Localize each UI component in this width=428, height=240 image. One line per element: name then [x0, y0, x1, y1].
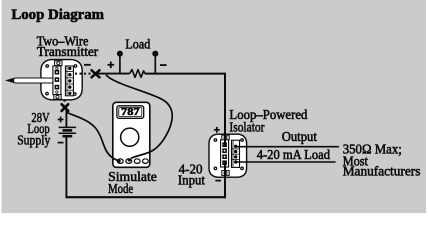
- two-wire transmitter housing: [41, 60, 82, 100]
- transmitter top screw tab: [55, 61, 62, 66]
- polarity label plus (right of X1): [108, 62, 115, 69]
- dashed wire: transmitter + terminal to break X1: [75, 73, 93, 75]
- battery supply + label: [58, 117, 64, 123]
- isolator right terminal strip: [232, 140, 240, 167]
- svg-text:Supply: Supply: [17, 133, 50, 148]
- wire: X1 to resistor: [95, 73, 129, 75]
- dashed wire: transmitter - terminal to break X2: [64, 100, 66, 104]
- meter rotary dial: [121, 128, 139, 146]
- label: Loop-Powered Isolator: [229, 108, 307, 135]
- break mark X2: [62, 104, 69, 111]
- output wire top: [236, 146, 339, 148]
- isolator left terminal strip: [221, 140, 229, 167]
- transmitter bottom screw tab: [54, 94, 61, 99]
- transmitter right terminal strip: [65, 66, 73, 96]
- svg-text:Manufacturers: Manufacturers: [343, 164, 421, 179]
- resistor (loop load): [130, 70, 145, 78]
- svg-text:787: 787: [121, 107, 140, 118]
- battery supply - label: [58, 142, 64, 144]
- isolator top screw tab: [222, 135, 229, 140]
- test lead: supply break X2 to meter jack 1: [67, 113, 118, 161]
- svg-text:Transmitter: Transmitter: [37, 45, 99, 60]
- transmitter left terminal strip: [53, 66, 61, 95]
- test lead: loop break X1 to meter jack 2: [106, 75, 172, 159]
- svg-text:4-20 mA Load: 4-20 mA Load: [257, 148, 330, 163]
- label: Two-Wire Transmitter: [37, 35, 99, 61]
- label: 350 ohm Max; Most Manufacturers: [343, 142, 421, 179]
- svg-text:Isolator: Isolator: [229, 120, 264, 135]
- label: Simulate Mode: [108, 170, 157, 197]
- load polarity minus: [160, 64, 167, 66]
- isolator corner screws: [214, 138, 244, 170]
- sensor probe: [7, 78, 54, 83]
- break mark X1: [92, 70, 100, 77]
- transmitter corner screws: [45, 64, 77, 96]
- svg-text:Output: Output: [282, 130, 317, 145]
- svg-text:Load: Load: [125, 37, 150, 52]
- load terminal post right: [152, 51, 158, 74]
- bottom bus wire: [66, 196, 227, 198]
- label: 28V Loop Supply: [17, 111, 50, 148]
- svg-text:Mode: Mode: [108, 182, 133, 197]
- wire: vertical through isolator (redrawn on top): [224, 133, 226, 147]
- wire: resistor to top-right corner and down to isolator +: [145, 74, 225, 147]
- polarity label minus (left of X1): [84, 64, 91, 66]
- multimeter Fluke 787: [113, 102, 150, 167]
- load terminal post left: [117, 51, 123, 74]
- output wire bottom: [236, 161, 336, 163]
- wire: X2 down to battery + plate: [65, 111, 67, 128]
- isolator - label: [215, 180, 221, 182]
- wire: bottom bus up to isolator - terminal: [224, 161, 226, 198]
- wire: battery - down to bottom bus: [65, 136, 67, 198]
- isolator bottom screw tab: [222, 171, 229, 176]
- meter jacks: [117, 159, 123, 164]
- loop-powered isolator housing: [209, 134, 247, 177]
- label: 4-20 Input: [178, 163, 205, 189]
- battery B1 (28V loop supply): [59, 127, 77, 136]
- svg-text:Loop Diagram: Loop Diagram: [11, 7, 104, 23]
- svg-text:Input: Input: [178, 174, 205, 189]
- isolator + label: [214, 127, 220, 133]
